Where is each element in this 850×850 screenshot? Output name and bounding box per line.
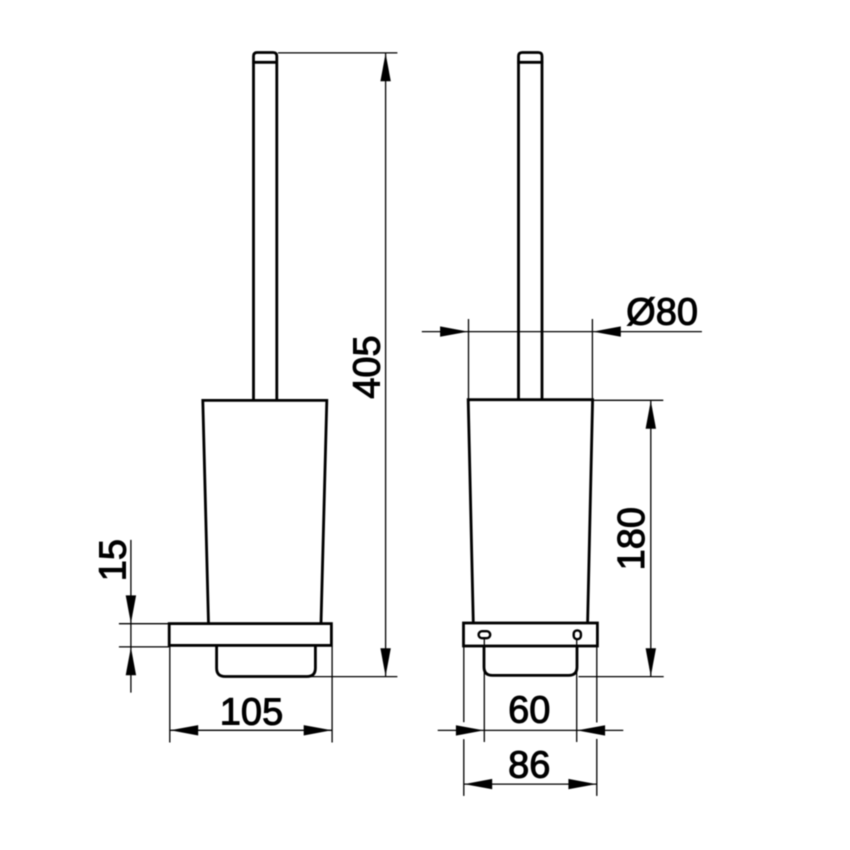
left view: brush handle rod — [254, 53, 277, 401]
dim 60: left extension line — [483, 639, 485, 743]
left view: cup (tapered beaker) — [203, 400, 327, 623]
svg-text:405: 405 — [347, 335, 389, 398]
dim 86: right arrowhead — [568, 779, 596, 789]
dim 60: right extension line — [576, 640, 578, 743]
right view: cup (tapered beaker) — [468, 400, 592, 623]
dim 86: right extension line lower segment — [596, 739, 598, 796]
dim 105: right extension line — [331, 647, 333, 743]
right view: lower holder body — [484, 646, 577, 675]
dim 15: upper arrowhead — [126, 595, 136, 623]
dim 180: lower arrowhead — [646, 648, 656, 676]
svg-text:Ø80: Ø80 — [626, 292, 698, 334]
svg-text:105: 105 — [220, 691, 283, 733]
dim 405: dimension line — [385, 53, 387, 677]
dim 180: dimension line — [650, 400, 652, 676]
dim 405: upper arrowhead — [380, 53, 390, 81]
dim 15: lower extension line — [119, 646, 169, 648]
svg-text:86: 86 — [508, 745, 550, 787]
dim 86: right extension line upper segment — [596, 647, 598, 723]
dim 405: lower arrowhead — [380, 648, 390, 676]
dim 405: bottom extension line — [310, 676, 397, 678]
dim 86: left arrowhead — [464, 779, 492, 789]
dim d80: right extension line — [591, 319, 593, 399]
dim 105: right arrowhead — [304, 725, 332, 735]
dim 60: right arrowhead — [577, 725, 605, 735]
dim 86: left extension line lower segment — [463, 739, 465, 796]
dim d80: left extension line — [468, 319, 470, 399]
right view: handle cap line — [517, 61, 543, 64]
right view: left screw slot — [479, 631, 491, 638]
dim d80: right arrowhead — [593, 326, 621, 336]
left view: handle cap line — [252, 61, 278, 64]
dim 86: dimension line — [464, 783, 597, 785]
dim 180: upper arrowhead — [646, 401, 656, 429]
dim 180: bottom extension line — [579, 676, 664, 678]
dim 60: dimension line — [438, 729, 624, 731]
svg-text:15: 15 — [93, 539, 135, 581]
dim 105: left arrowhead — [170, 725, 198, 735]
dim 86: left extension line upper segment — [463, 647, 465, 723]
dim 180: top extension line — [594, 399, 663, 401]
dim 105: left extension line — [169, 647, 171, 743]
dim 60: left arrowhead — [456, 725, 484, 735]
right view: wall plate — [464, 623, 598, 646]
right view: brush handle rod — [519, 53, 543, 400]
left view: lower holder body — [217, 645, 316, 676]
dim 15: lower arrowhead — [126, 647, 136, 675]
svg-text:60: 60 — [508, 690, 550, 732]
dim d80: dimension line — [422, 331, 702, 333]
left view: wall plate — [169, 624, 331, 646]
right view: right screw hole — [574, 630, 581, 639]
dim 15: dimension line — [130, 540, 132, 693]
dim d80: left arrowhead — [440, 326, 468, 336]
dim 405: top extension line — [278, 52, 397, 54]
dim 15: upper extension line — [119, 623, 169, 625]
dim 105: dimension line — [170, 729, 332, 731]
svg-text:180: 180 — [611, 507, 653, 570]
